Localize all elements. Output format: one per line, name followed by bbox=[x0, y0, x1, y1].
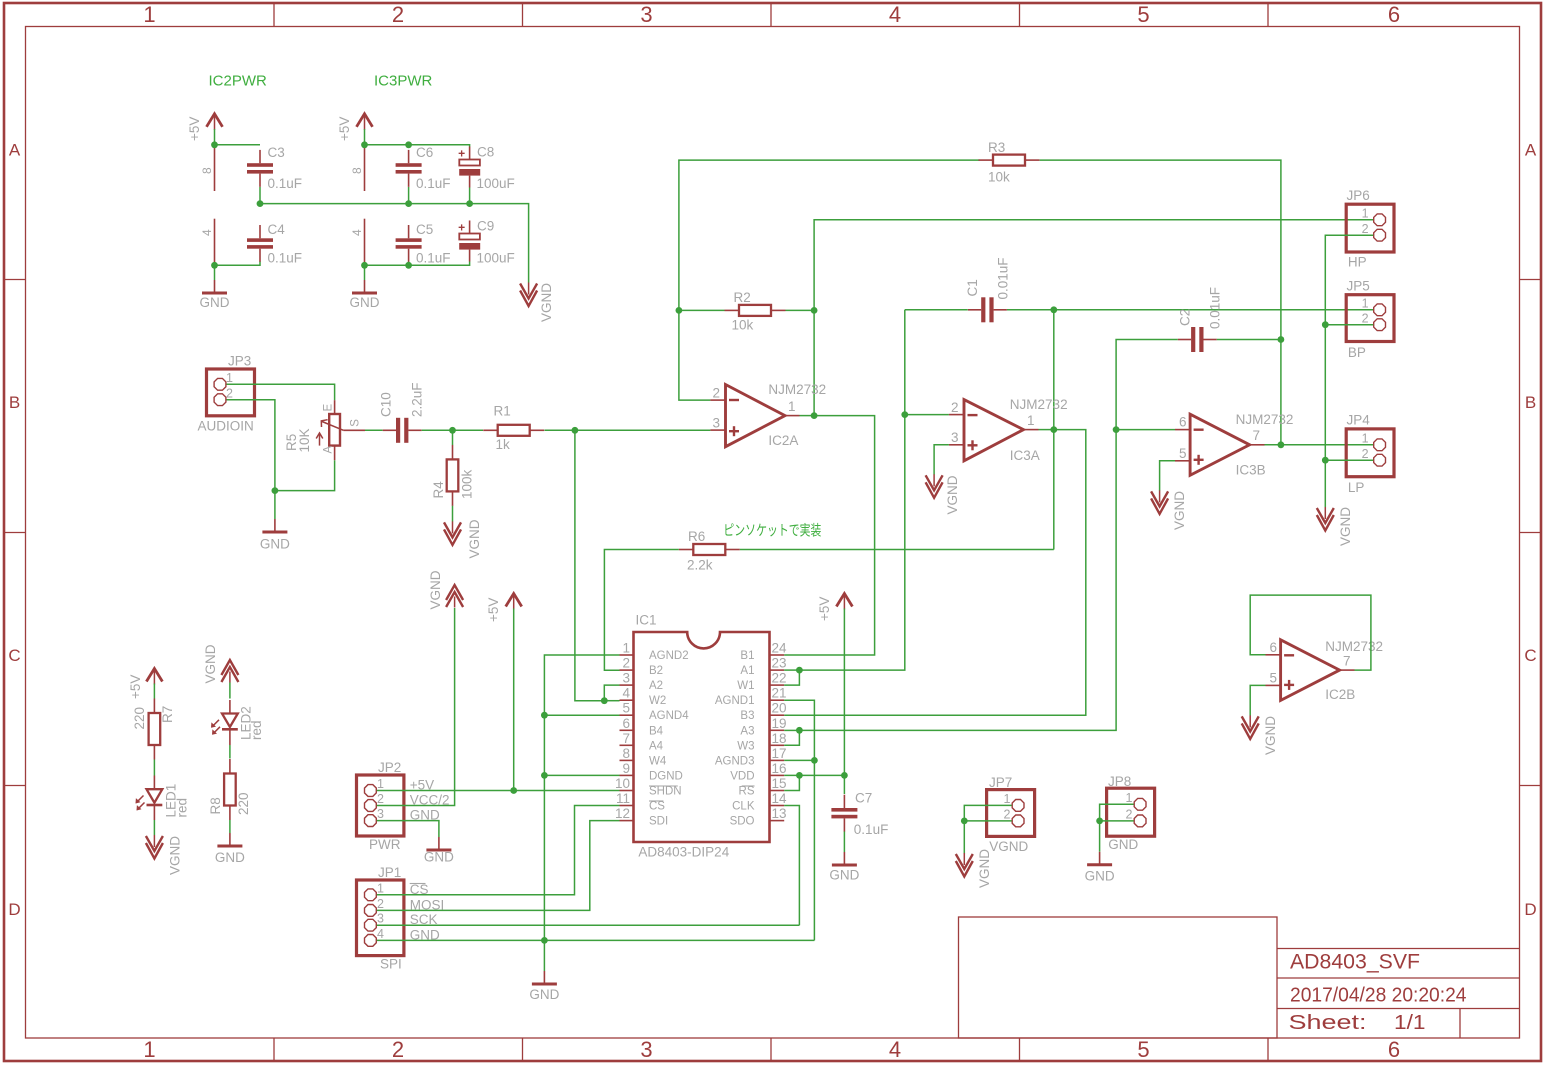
connector JP4 bbox=[1346, 413, 1394, 496]
wire bbox=[364, 129, 366, 145]
svg-text:W1: W1 bbox=[737, 680, 754, 692]
LED LED2 bbox=[211, 700, 264, 745]
svg-text:1: 1 bbox=[1362, 207, 1369, 221]
potentiometer R5 bbox=[284, 400, 365, 460]
svg-text:100uF: 100uF bbox=[477, 251, 515, 266]
IC1 pin 11 CS bbox=[616, 791, 665, 813]
capacitor C7 bbox=[831, 791, 888, 838]
svg-text:B2: B2 bbox=[649, 665, 663, 677]
VGND symbol up (LED2) bbox=[203, 644, 238, 683]
svg-text:100uF: 100uF bbox=[477, 176, 515, 191]
svg-text:B4: B4 bbox=[649, 725, 664, 737]
junction bbox=[901, 411, 908, 418]
net label MOSI (JP1-2) bbox=[410, 897, 445, 912]
svg-text:5: 5 bbox=[1137, 2, 1149, 27]
+5V symbol (LED1) bbox=[128, 669, 162, 700]
IC1 pin 6 B4 bbox=[620, 716, 664, 738]
wire bbox=[453, 429, 484, 431]
wire bbox=[408, 187, 410, 204]
capacitor C2 bbox=[1178, 287, 1223, 352]
svg-text:22: 22 bbox=[772, 671, 787, 686]
wire bbox=[905, 414, 949, 416]
IC1 pin 7 A4 bbox=[620, 731, 664, 753]
svg-text:SPI: SPI bbox=[380, 957, 402, 972]
svg-text:6: 6 bbox=[1269, 640, 1277, 655]
wire bbox=[1325, 459, 1373, 461]
wire bbox=[1116, 429, 1175, 431]
svg-text:11: 11 bbox=[616, 791, 630, 806]
+5V symbol (IC3PWR) bbox=[337, 114, 373, 141]
+5V symbol (IC2PWR) bbox=[187, 114, 223, 141]
svg-text:A: A bbox=[1525, 141, 1537, 160]
svg-text:C8: C8 bbox=[477, 145, 494, 160]
IC1 pin 5 AGND4 bbox=[620, 701, 690, 723]
svg-text:3: 3 bbox=[951, 430, 959, 445]
svg-text:21: 21 bbox=[772, 686, 787, 701]
svg-text:3: 3 bbox=[640, 2, 652, 27]
svg-text:24: 24 bbox=[772, 641, 788, 656]
svg-text:1: 1 bbox=[143, 1037, 155, 1062]
svg-text:2: 2 bbox=[1126, 808, 1133, 822]
IC2 power pin 8 bbox=[200, 145, 215, 191]
svg-text:GND: GND bbox=[215, 850, 245, 865]
svg-text:IC1: IC1 bbox=[636, 613, 657, 628]
svg-text:red: red bbox=[175, 798, 190, 818]
op-amp IC2B bbox=[1266, 639, 1383, 702]
svg-text:A: A bbox=[9, 141, 21, 160]
svg-text:VGND: VGND bbox=[428, 570, 443, 609]
junction bbox=[796, 772, 803, 779]
svg-text:GND: GND bbox=[1108, 837, 1138, 852]
junction bbox=[405, 262, 412, 269]
svg-text:C9: C9 bbox=[477, 219, 494, 234]
VGND symbol (IC3B) bbox=[1151, 490, 1187, 530]
svg-text:AUDIOIN: AUDIOIN bbox=[198, 419, 254, 434]
svg-text:1: 1 bbox=[622, 641, 630, 656]
IC IC1 AD8403-DIP24 body bbox=[634, 613, 770, 860]
connector JP2 bbox=[357, 760, 404, 852]
svg-text:IC3B: IC3B bbox=[1236, 463, 1266, 478]
svg-text:0.1uF: 0.1uF bbox=[854, 822, 889, 837]
wire bbox=[740, 549, 1054, 551]
svg-text:A3: A3 bbox=[740, 725, 754, 737]
wire bbox=[214, 265, 216, 280]
svg-text:C2: C2 bbox=[1178, 309, 1193, 326]
svg-text:A2: A2 bbox=[649, 680, 663, 692]
wire bbox=[679, 160, 980, 400]
svg-text:2: 2 bbox=[622, 656, 630, 671]
wire bbox=[377, 608, 455, 806]
svg-text:A1: A1 bbox=[740, 665, 754, 677]
svg-text:D: D bbox=[8, 900, 20, 919]
junction bbox=[466, 200, 473, 207]
op-amp IC3A bbox=[949, 397, 1068, 463]
VGND symbol up (VCC/2) bbox=[428, 570, 463, 609]
junction bbox=[1278, 441, 1285, 448]
svg-text:C4: C4 bbox=[268, 222, 286, 237]
wire bbox=[545, 429, 575, 431]
resistor R4 bbox=[431, 445, 475, 506]
svg-text:NJM2732: NJM2732 bbox=[1236, 412, 1294, 427]
svg-text:10K: 10K bbox=[297, 428, 312, 452]
svg-text:2: 2 bbox=[392, 2, 404, 27]
svg-text:NJM2732: NJM2732 bbox=[768, 382, 826, 397]
wire bbox=[422, 429, 453, 431]
svg-text:220: 220 bbox=[132, 707, 147, 730]
svg-text:+: + bbox=[458, 147, 465, 161]
ground symbol (IC2PWR) bbox=[200, 280, 230, 310]
IC1 pin 12 SDI bbox=[615, 806, 668, 828]
junction bbox=[449, 427, 456, 434]
resistor R8 bbox=[208, 759, 251, 820]
svg-text:6: 6 bbox=[1388, 1037, 1400, 1062]
resistor R7 bbox=[132, 699, 175, 760]
wire bbox=[786, 309, 815, 311]
svg-text:2.2uF: 2.2uF bbox=[410, 382, 425, 417]
ground symbol (LED2) bbox=[215, 833, 245, 865]
wire bbox=[784, 430, 1086, 716]
svg-text:12: 12 bbox=[615, 806, 630, 821]
svg-text:GND: GND bbox=[424, 850, 454, 865]
wire bbox=[679, 309, 725, 311]
IC1 pin 17 AGND3 bbox=[715, 746, 787, 768]
junction bbox=[541, 937, 548, 944]
svg-text:2: 2 bbox=[712, 386, 720, 401]
junction bbox=[361, 141, 368, 148]
wire bbox=[784, 669, 799, 671]
wire bbox=[1280, 340, 1282, 445]
junction bbox=[572, 427, 579, 434]
ground symbol (JP8) bbox=[1085, 852, 1115, 884]
wire bbox=[1116, 340, 1178, 430]
svg-text:13: 13 bbox=[772, 806, 787, 821]
svg-text:5: 5 bbox=[1269, 670, 1277, 685]
wire bbox=[377, 924, 800, 926]
wire bbox=[227, 384, 335, 400]
svg-text:+: + bbox=[458, 221, 465, 235]
wire bbox=[784, 670, 799, 685]
junction bbox=[541, 772, 548, 779]
svg-text:3: 3 bbox=[640, 1037, 652, 1062]
junction bbox=[796, 667, 803, 674]
junction bbox=[211, 141, 218, 148]
wire bbox=[843, 832, 845, 853]
wire bbox=[799, 430, 1116, 731]
junction bbox=[211, 262, 218, 269]
junction bbox=[257, 200, 264, 207]
capacitor C10 bbox=[379, 382, 425, 442]
svg-text:red: red bbox=[249, 720, 264, 740]
svg-text:4: 4 bbox=[889, 1037, 901, 1062]
wire bbox=[215, 262, 261, 266]
connector JP8 bbox=[1107, 774, 1155, 852]
wire bbox=[153, 760, 155, 776]
wire bbox=[452, 506, 454, 522]
wire bbox=[1160, 461, 1175, 491]
IC1 pin 20 B3 bbox=[740, 701, 786, 723]
svg-text:VGND: VGND bbox=[989, 839, 1028, 854]
ground symbol (digital GND) bbox=[529, 971, 559, 1002]
IC2 power pin 4 bbox=[200, 219, 215, 266]
wire bbox=[275, 460, 335, 490]
svg-text:DGND: DGND bbox=[649, 770, 683, 782]
IC1 pin 8 W4 bbox=[620, 746, 667, 768]
IC3 power pin 4 bbox=[350, 219, 365, 266]
junction bbox=[510, 787, 517, 794]
junction bbox=[1096, 818, 1103, 825]
svg-text:+5V: +5V bbox=[337, 117, 352, 141]
wire bbox=[784, 806, 799, 926]
svg-text:IC2B: IC2B bbox=[1325, 687, 1355, 702]
net label IC2PWR bbox=[209, 73, 268, 90]
svg-text:2: 2 bbox=[1362, 222, 1369, 236]
svg-text:1: 1 bbox=[377, 777, 384, 791]
svg-text:2: 2 bbox=[1362, 447, 1369, 461]
svg-text:2: 2 bbox=[226, 387, 233, 401]
svg-text:100k: 100k bbox=[460, 469, 475, 499]
svg-text:5: 5 bbox=[1179, 446, 1187, 461]
frame column numbers top bbox=[143, 2, 1400, 27]
svg-text:CLK: CLK bbox=[732, 801, 755, 813]
svg-text:IC3A: IC3A bbox=[1010, 448, 1040, 463]
wire bbox=[214, 129, 216, 145]
svg-text:VGND: VGND bbox=[467, 519, 482, 558]
IC1 pin 22 W1 bbox=[737, 671, 786, 693]
svg-text:C5: C5 bbox=[416, 222, 433, 237]
svg-text:1: 1 bbox=[1004, 792, 1011, 806]
junction bbox=[811, 757, 818, 764]
svg-text:0.01uF: 0.01uF bbox=[1208, 287, 1223, 329]
svg-text:1: 1 bbox=[143, 2, 155, 27]
svg-text:R7: R7 bbox=[160, 706, 175, 723]
svg-text:2.2k: 2.2k bbox=[687, 558, 713, 573]
wire bbox=[1039, 429, 1054, 431]
svg-text:GND: GND bbox=[529, 987, 559, 1002]
wire bbox=[513, 609, 515, 791]
connector JP1 bbox=[357, 865, 404, 972]
IC1 pin 1 AGND2 bbox=[620, 641, 689, 663]
VGND symbol (IC2B) bbox=[1242, 715, 1278, 755]
wire bbox=[1265, 444, 1374, 446]
svg-text:RS: RS bbox=[739, 786, 755, 798]
junction bbox=[811, 412, 818, 419]
junction bbox=[601, 697, 608, 704]
wire bbox=[543, 940, 545, 971]
frame column numbers bottom bbox=[143, 1037, 1400, 1062]
capacitor C1 bbox=[965, 257, 1011, 322]
op-amp IC2A bbox=[710, 382, 826, 448]
svg-text:GND: GND bbox=[829, 868, 859, 883]
wire bbox=[1250, 685, 1265, 715]
wire bbox=[784, 729, 799, 731]
VGND symbol (output connectors) bbox=[1317, 507, 1353, 546]
wire bbox=[377, 806, 620, 895]
wire bbox=[905, 309, 968, 311]
svg-text:8: 8 bbox=[350, 167, 364, 174]
wire bbox=[153, 820, 155, 835]
svg-text:IC3PWR: IC3PWR bbox=[374, 73, 433, 90]
wire bbox=[229, 745, 231, 759]
svg-text:16: 16 bbox=[772, 761, 787, 776]
svg-text:VGND: VGND bbox=[539, 283, 554, 322]
wire bbox=[934, 445, 949, 475]
svg-text:3: 3 bbox=[622, 671, 630, 686]
capacitor C3 bbox=[247, 145, 302, 191]
svg-text:3: 3 bbox=[712, 416, 720, 431]
+5V symbol (IC1 VDD) bbox=[817, 594, 852, 622]
svg-text:NJM2732: NJM2732 bbox=[1325, 639, 1383, 654]
wire bbox=[843, 609, 845, 776]
svg-text:GND: GND bbox=[1085, 869, 1115, 884]
svg-text:2: 2 bbox=[377, 897, 384, 911]
svg-text:NJM2732: NJM2732 bbox=[1010, 397, 1068, 412]
svg-text:2: 2 bbox=[377, 792, 384, 806]
svg-text:BP: BP bbox=[1348, 345, 1366, 360]
svg-text:4: 4 bbox=[622, 686, 630, 701]
svg-text:AGND4: AGND4 bbox=[649, 710, 689, 722]
junction bbox=[841, 772, 848, 779]
junction bbox=[796, 727, 803, 734]
junction bbox=[1050, 426, 1057, 433]
junction bbox=[405, 141, 412, 148]
svg-text:C6: C6 bbox=[416, 145, 433, 160]
junction bbox=[1113, 426, 1120, 433]
resistor R2 bbox=[725, 290, 786, 333]
wire bbox=[964, 820, 1011, 822]
connector JP6 bbox=[1346, 188, 1394, 270]
svg-text:4: 4 bbox=[200, 229, 214, 236]
svg-text:0.1uF: 0.1uF bbox=[416, 176, 451, 191]
svg-text:W3: W3 bbox=[737, 740, 754, 752]
connector JP3 bbox=[198, 354, 255, 434]
wire bbox=[604, 550, 678, 671]
svg-text:+5V: +5V bbox=[187, 117, 202, 141]
wire bbox=[377, 821, 620, 911]
capacitor C9 (electrolytic) bbox=[458, 219, 515, 266]
LED LED1 bbox=[136, 776, 190, 821]
svg-text:C10: C10 bbox=[379, 392, 394, 417]
svg-text:4: 4 bbox=[377, 927, 384, 941]
svg-text:19: 19 bbox=[772, 716, 787, 731]
svg-text:1: 1 bbox=[1362, 432, 1369, 446]
svg-text:C: C bbox=[8, 646, 20, 665]
svg-text:W4: W4 bbox=[649, 755, 667, 767]
resistor R6 bbox=[679, 529, 740, 573]
svg-text:IC2A: IC2A bbox=[768, 433, 798, 448]
svg-text:+5V: +5V bbox=[128, 675, 143, 699]
IC1 pin 4 W2 bbox=[620, 686, 667, 708]
svg-text:6: 6 bbox=[1388, 2, 1400, 27]
svg-text:1: 1 bbox=[1362, 297, 1369, 311]
wire bbox=[784, 774, 844, 776]
wire bbox=[814, 220, 1373, 416]
svg-text:VGND: VGND bbox=[1263, 716, 1278, 755]
svg-text:+5V: +5V bbox=[486, 598, 501, 622]
junction bbox=[1278, 336, 1285, 343]
VGND symbol (JP7) bbox=[956, 849, 992, 888]
resistor R3 bbox=[979, 140, 1040, 185]
svg-text:R2: R2 bbox=[734, 290, 751, 305]
svg-text:S: S bbox=[350, 419, 362, 427]
wire bbox=[843, 775, 845, 794]
frame row letters left bbox=[8, 141, 20, 920]
wire bbox=[1217, 339, 1281, 341]
svg-text:Sheet:: Sheet: bbox=[1289, 1011, 1367, 1034]
wire bbox=[1100, 820, 1134, 822]
junction bbox=[405, 200, 412, 207]
svg-text:C1: C1 bbox=[965, 279, 980, 296]
svg-text:0.1uF: 0.1uF bbox=[416, 251, 451, 266]
svg-text:W2: W2 bbox=[649, 695, 666, 707]
wire bbox=[259, 187, 261, 204]
svg-text:1: 1 bbox=[1126, 791, 1133, 805]
svg-text:B1: B1 bbox=[740, 650, 754, 662]
wire bbox=[964, 805, 1011, 853]
svg-text:18: 18 bbox=[772, 731, 787, 746]
junction bbox=[1322, 321, 1329, 328]
svg-text:VGND: VGND bbox=[203, 644, 218, 683]
ground symbol (IC3PWR) bbox=[350, 280, 380, 310]
frame row letters right bbox=[1524, 141, 1536, 920]
mid VGND rail wire bbox=[260, 204, 529, 283]
svg-text:AD8403-DIP24: AD8403-DIP24 bbox=[638, 845, 729, 860]
svg-text:2: 2 bbox=[951, 400, 959, 415]
svg-text:10k: 10k bbox=[732, 318, 754, 333]
svg-text:0.01uF: 0.01uF bbox=[996, 257, 1011, 299]
IC1 pin 10 SHDN bbox=[615, 776, 682, 798]
svg-text:PWR: PWR bbox=[369, 837, 401, 852]
svg-text:5: 5 bbox=[622, 701, 630, 716]
svg-text:6: 6 bbox=[622, 716, 630, 731]
svg-text:R6: R6 bbox=[688, 529, 705, 544]
svg-text:CS: CS bbox=[649, 801, 665, 813]
svg-text:7: 7 bbox=[622, 731, 630, 746]
svg-text:2: 2 bbox=[392, 1037, 404, 1062]
svg-text:AD8403_SVF: AD8403_SVF bbox=[1290, 951, 1420, 974]
svg-text:1k: 1k bbox=[496, 437, 511, 452]
wire bbox=[1325, 324, 1373, 326]
IC1 pin 2 B2 bbox=[620, 656, 664, 678]
net label VCC/2 (JP2-2) bbox=[410, 793, 450, 808]
svg-text:1: 1 bbox=[377, 881, 384, 895]
svg-text:3: 3 bbox=[377, 807, 384, 821]
VGND symbol (LED1) bbox=[146, 835, 183, 875]
svg-text:HP: HP bbox=[1348, 255, 1367, 270]
svg-text:SHDN: SHDN bbox=[649, 786, 682, 798]
wire bbox=[575, 429, 711, 431]
svg-text:D: D bbox=[1524, 900, 1536, 919]
wire bbox=[1100, 804, 1134, 852]
svg-text:R4: R4 bbox=[431, 481, 446, 499]
wire bbox=[377, 821, 439, 837]
svg-text:A4: A4 bbox=[649, 740, 664, 752]
wire bbox=[544, 655, 619, 940]
svg-text:R8: R8 bbox=[208, 797, 223, 814]
svg-text:JP3: JP3 bbox=[228, 354, 251, 369]
title block bbox=[959, 917, 1520, 1038]
svg-text:2017/04/28 20:20:24: 2017/04/28 20:20:24 bbox=[1290, 984, 1467, 1007]
svg-text:GND: GND bbox=[350, 295, 380, 310]
svg-text:B3: B3 bbox=[740, 710, 754, 722]
capacitor C4 bbox=[247, 222, 302, 266]
ground symbol (JP3) bbox=[260, 519, 290, 552]
svg-text:SDI: SDI bbox=[649, 816, 668, 828]
IC1 pin 18 W3 bbox=[737, 731, 786, 753]
svg-text:10k: 10k bbox=[988, 170, 1010, 185]
svg-text:6: 6 bbox=[1179, 415, 1187, 430]
op-amp IC3B bbox=[1175, 412, 1293, 478]
junction bbox=[361, 262, 368, 269]
